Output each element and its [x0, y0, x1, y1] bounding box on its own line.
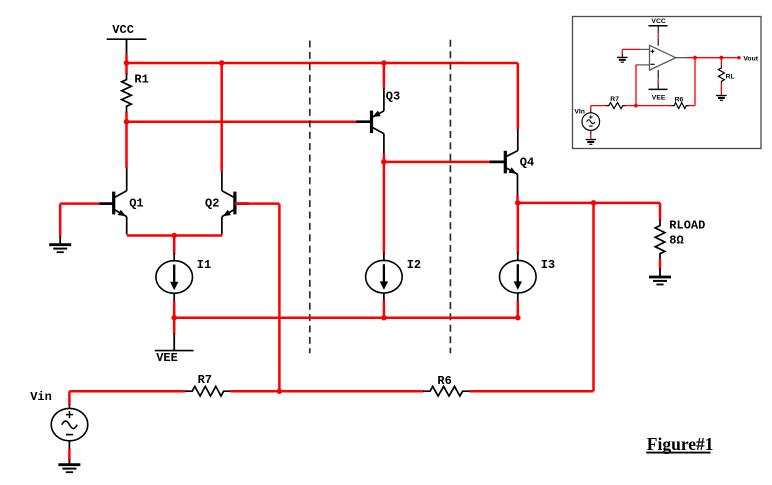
node emitters / I1 [171, 233, 177, 239]
inset wire R7 to node [625, 105, 672, 107]
inset node output/RL [720, 56, 724, 60]
wire Q2 base down to R7/R6 node [278, 204, 281, 392]
inset op-amp U1 [650, 45, 676, 70]
stage separator dashed line 1 [309, 41, 311, 354]
wire I1 bottom stub [173, 293, 175, 302]
resistor RLOAD [655, 220, 665, 260]
wire Q3 collector [383, 154, 386, 162]
svg-text:Q2: Q2 [205, 197, 219, 211]
wire output rail [518, 202, 660, 205]
wire Q1 collector [125, 122, 128, 169]
svg-text:VEE: VEE [156, 351, 178, 365]
svg-text:R7: R7 [610, 96, 619, 103]
svg-text:I2: I2 [407, 258, 421, 272]
power VEE symbol [173, 334, 175, 351]
inset node output/feedback [693, 56, 697, 60]
wire RLOAD to ground [659, 259, 662, 269]
wire to VEE symbol [173, 318, 176, 335]
wire I1 top stub [173, 253, 175, 261]
inset wire VCC to op-amp [657, 26, 659, 33]
svg-text:VIn: VIn [574, 108, 585, 115]
svg-text:Q1: Q1 [129, 197, 143, 211]
wire I2 top stub [383, 253, 385, 261]
inset ground (+ input) [621, 49, 623, 54]
wire R1 bottom [125, 112, 128, 122]
wire R7 to node [230, 390, 279, 393]
transistor Q1 [99, 168, 126, 235]
inset wire - input to feedback node [635, 65, 637, 106]
node output / feedback [591, 200, 597, 206]
transistor Q2 [222, 172, 249, 235]
inset wire RL top [720, 58, 722, 67]
wire Vin top [68, 391, 71, 405]
inset wire Vin to R7 [591, 105, 607, 107]
wire I2 top [383, 162, 386, 254]
svg-text:8Ω: 8Ω [669, 233, 683, 247]
inset ground (RL) [716, 95, 727, 97]
svg-text:R6: R6 [437, 374, 451, 388]
svg-text:RLOAD: RLOAD [669, 218, 705, 232]
source Vin (AC) [51, 405, 88, 450]
wire Q4 collector [517, 63, 520, 130]
svg-text:Q4: Q4 [520, 155, 534, 169]
node I2 / VEE rail [381, 315, 387, 321]
wire I3 top stub [517, 253, 519, 261]
wire top VCC rail [127, 62, 518, 65]
node top rail / Q3 emitter [381, 60, 387, 66]
wire I2 bottom stub [383, 293, 385, 302]
wire Q2 collector [220, 63, 223, 172]
node R7 / R6 / Q2 base [277, 388, 283, 394]
transistor Q4 [490, 129, 518, 196]
transistor Q3 [356, 88, 384, 154]
svg-text:VCC: VCC [651, 18, 665, 25]
inset node R7/R6/- input [634, 104, 638, 108]
wire VCC to top rail [125, 54, 128, 64]
svg-text:R7: R7 [198, 373, 212, 387]
inset resistor R7 [606, 103, 625, 109]
wire VEE rail [174, 316, 518, 319]
wire I1 to VEE rail [173, 301, 176, 318]
inset wire RL to ground [720, 83, 722, 95]
svg-text:VEE: VEE [652, 95, 666, 102]
inset wire - input [636, 64, 638, 66]
ground (Vin) [68, 460, 70, 464]
wire node to R6 [279, 390, 423, 393]
wire to input ground [59, 204, 62, 238]
wire Q3 collector to Q4 base [384, 161, 490, 164]
node R1 / Q1 collector junction [124, 119, 130, 125]
inset wire R6 to feedback [688, 105, 695, 107]
svg-text:Q3: Q3 [386, 90, 400, 104]
inset frame [573, 17, 762, 149]
svg-text:Vout: Vout [743, 55, 758, 62]
node Q4 emitter / I3 / output [515, 200, 521, 206]
wire Q1-Q2 emitters [127, 234, 223, 237]
inset ground (Vin) [586, 139, 597, 141]
wire base rail to Q3 [127, 120, 357, 123]
node Q3 collector / I2 [381, 159, 387, 165]
wire Q1 base [60, 202, 99, 205]
wire Q4 emitter [516, 195, 519, 203]
wire I2 to VEE rail [383, 301, 386, 318]
ground (RLOAD) [659, 268, 661, 276]
wire to I1 [173, 236, 176, 255]
wire I3 top [517, 203, 520, 254]
node VEE junction [171, 315, 177, 321]
current source I2 [366, 260, 403, 293]
wire R6 to feedback [469, 390, 593, 393]
svg-text:Figure#1: Figure#1 [647, 434, 714, 454]
wire output to RLOAD [659, 203, 662, 220]
svg-text:VCC: VCC [112, 23, 134, 37]
wire I3 bottom stub [517, 293, 519, 302]
resistor R1 [122, 74, 132, 113]
resistor R6 [423, 386, 470, 396]
inset wire feedback down [694, 58, 696, 106]
wire I3 to VEE rail [517, 301, 520, 318]
svg-text:Vin: Vin [30, 390, 52, 404]
svg-text:RL: RL [726, 73, 735, 80]
node I3 / VEE rail [515, 315, 521, 321]
svg-text:I3: I3 [541, 258, 555, 272]
wire Vin bottom [68, 449, 71, 461]
node top rail / R1 [124, 60, 130, 66]
svg-text:R6: R6 [675, 97, 684, 104]
inset Vout terminal [737, 56, 740, 59]
current source I3 [500, 260, 537, 293]
svg-text:I1: I1 [197, 258, 211, 272]
node top rail / Q2 collector [219, 60, 225, 66]
stage separator dashed line 2 [449, 40, 451, 354]
wire R1 top [125, 63, 128, 74]
svg-text:R1: R1 [134, 73, 148, 87]
wire Q2 base [235, 202, 280, 205]
inset source Vin [590, 106, 592, 111]
inset power VCC bar [649, 25, 668, 27]
inset wire + input [622, 48, 640, 50]
wire feedback (output to R6) [592, 203, 595, 391]
wire Q3 emitter [383, 63, 386, 89]
inset wire op-amp output [676, 57, 686, 59]
wire Vin to R7 [69, 390, 185, 393]
inset wire op-amp to VEE [657, 70, 659, 78]
inset resistor R6 [672, 103, 689, 109]
inset resistor RL [718, 66, 724, 84]
current source I1 [156, 261, 193, 294]
inset power VEE bar [649, 88, 668, 90]
ground (Q1 base) [59, 237, 61, 244]
resistor R7 [185, 386, 230, 396]
power VCC symbol [107, 38, 147, 40]
